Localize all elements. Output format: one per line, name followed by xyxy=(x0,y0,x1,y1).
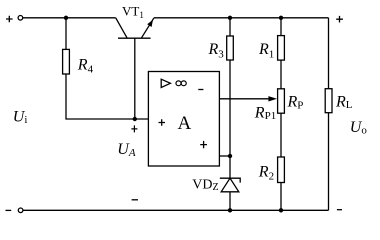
op-amp bottom plus mark xyxy=(200,141,207,148)
svg-text:RP1: RP1 xyxy=(254,104,276,122)
op-amp infinity symbol xyxy=(176,81,186,86)
terminal + input top-left circle xyxy=(18,15,23,20)
UA minus polarity mark xyxy=(132,199,138,201)
label + output top-right xyxy=(336,16,343,23)
resistor R2 body xyxy=(278,157,285,183)
svg-text:VT1: VT1 xyxy=(122,4,144,21)
wire R4 bottom lead to base node and op-amp input xyxy=(66,74,148,119)
svg-text:R2: R2 xyxy=(258,163,274,182)
resistor RL body xyxy=(325,89,332,113)
svg-text:UA: UA xyxy=(117,141,136,159)
wire R3 bottom lead down to zener xyxy=(229,60,231,178)
node top rail at R1 xyxy=(279,16,283,20)
wire bottom rail xyxy=(23,209,329,211)
resistor R3 body xyxy=(227,36,234,60)
node junction top-left at R4 xyxy=(64,16,68,20)
node bottom rail at zener xyxy=(228,208,232,212)
wire RL branch right side xyxy=(328,18,330,89)
node top rail at R3 xyxy=(228,16,232,20)
label + UA polarity xyxy=(131,125,137,132)
node zener op-amp junction xyxy=(228,154,232,158)
wire R1 top lead xyxy=(280,18,282,36)
potentiometer RP body xyxy=(278,89,285,113)
op-amp noninverting plus mark xyxy=(159,119,166,126)
label - output bottom-right xyxy=(337,209,342,211)
resistor R1 body xyxy=(278,36,285,61)
wire op-amp reference lead to zener node xyxy=(219,155,230,157)
wire R4 top lead xyxy=(65,18,67,50)
svg-text:R4: R4 xyxy=(77,56,94,75)
svg-text:R3: R3 xyxy=(208,41,225,60)
transistor Q VT1 xyxy=(116,18,154,119)
svg-text:R1: R1 xyxy=(258,41,274,60)
label - input bottom-left xyxy=(6,209,12,211)
wire top rail right (emitter to output corner) xyxy=(154,17,329,19)
wire top rail left (terminal to transistor collector) xyxy=(23,17,116,19)
node base junction xyxy=(133,117,137,121)
svg-text:A: A xyxy=(178,113,192,134)
svg-text:VDZ: VDZ xyxy=(192,177,218,193)
op-amp gain symbol triangle xyxy=(161,79,170,87)
svg-text:RP: RP xyxy=(287,94,304,112)
wire R3 top lead xyxy=(229,18,231,36)
wire RP bottom to R2 top xyxy=(280,113,282,157)
wire R2 bottom lead xyxy=(280,183,282,211)
wire op-amp output to RP wiper xyxy=(219,98,269,100)
op-amp U A box xyxy=(148,72,219,167)
resistor R4 body xyxy=(63,49,70,74)
op-amp inverting input minus mark xyxy=(198,89,203,91)
label + input top-left xyxy=(6,16,13,23)
terminal - input bottom-left circle xyxy=(18,208,23,213)
wire RL bottom lead xyxy=(328,113,330,211)
svg-text:Ui: Ui xyxy=(13,108,28,126)
svg-text:Uo: Uo xyxy=(350,119,368,137)
svg-text:RL: RL xyxy=(335,93,353,111)
wire R1 bottom to RP top xyxy=(280,60,282,89)
node bottom rail at R2 xyxy=(279,208,283,212)
zener diode VDZ xyxy=(220,178,240,210)
